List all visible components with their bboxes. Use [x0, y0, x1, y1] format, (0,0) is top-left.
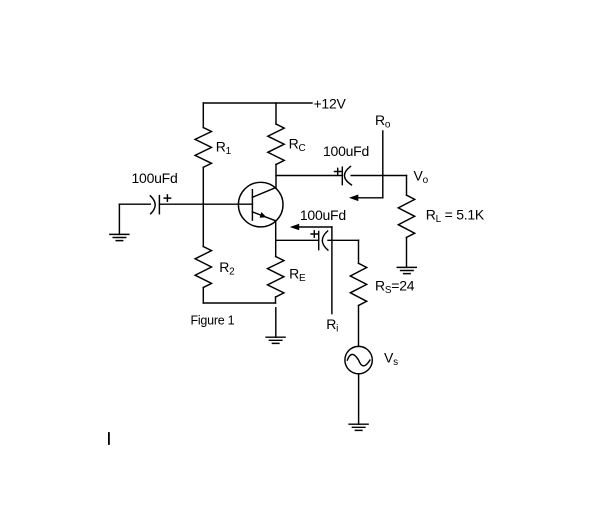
svg-text:Ri: Ri [326, 316, 338, 335]
svg-text:RL = 5.1K: RL = 5.1K [426, 206, 485, 225]
svg-text:RS=24: RS=24 [375, 277, 415, 296]
svg-text:100uFd: 100uFd [300, 207, 346, 223]
svg-text:Ro: Ro [375, 112, 391, 130]
svg-text:R1: R1 [216, 138, 232, 157]
svg-text:R2: R2 [219, 259, 235, 278]
svg-text:Vs: Vs [384, 350, 398, 369]
svg-text:RC: RC [289, 135, 306, 154]
svg-text:Vo: Vo [414, 168, 429, 187]
svg-text:100uFd: 100uFd [323, 143, 369, 159]
svg-text:+12V: +12V [314, 95, 347, 111]
svg-text:RE: RE [289, 266, 306, 285]
svg-text:Figure 1: Figure 1 [191, 314, 235, 328]
svg-text:100uFd: 100uFd [132, 170, 178, 186]
